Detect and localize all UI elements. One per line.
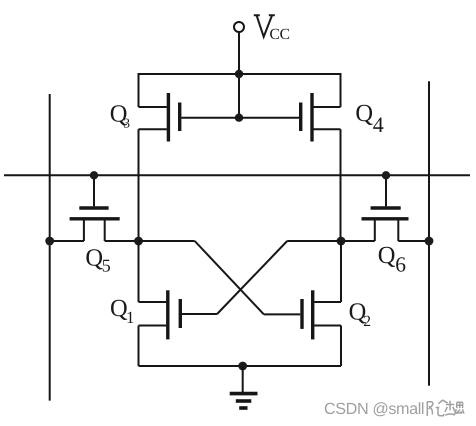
- wire top rail: [139, 73, 341, 75]
- svg-text:4: 4: [373, 112, 384, 137]
- svg-text:2: 2: [363, 313, 371, 330]
- wire Q2 source down: [340, 326, 342, 367]
- transistor Q5: [50, 175, 139, 241]
- node gate junction: [235, 114, 243, 122]
- label Q1: [110, 295, 135, 327]
- svg-text:5: 5: [102, 256, 111, 276]
- wire Q4 source to node B: [340, 129, 342, 241]
- wire node B to cross: [287, 240, 341, 242]
- node left bit line junction: [45, 237, 54, 246]
- svg-text:3: 3: [123, 115, 130, 130]
- label Vcc: [254, 15, 290, 43]
- Vcc terminal circle: [234, 22, 244, 32]
- transistor Q2: [264, 241, 341, 339]
- wire Q3 source to node A: [138, 129, 140, 241]
- wire bottom rail: [139, 365, 342, 367]
- node B junction: [337, 237, 346, 246]
- svg-text:CC: CC: [270, 26, 291, 43]
- label Q5: [85, 245, 110, 276]
- label Q6: [378, 242, 406, 277]
- transistor Q1: [139, 241, 218, 339]
- svg-text:6: 6: [395, 253, 406, 277]
- wire word line: [4, 174, 470, 176]
- transistor Q6: [341, 175, 429, 241]
- node Q6 gate on word line: [382, 171, 390, 179]
- wire Vcc stem: [238, 33, 240, 118]
- wire cross-couple diagonal B to Q1 gate: [217, 241, 287, 314]
- svg-text:Q: Q: [378, 242, 396, 269]
- svg-text:1: 1: [126, 308, 135, 327]
- label Q2: [349, 299, 371, 331]
- transistor Q4: [239, 73, 341, 142]
- wire right bit line: [428, 81, 430, 385]
- node Vcc rail junction: [235, 70, 243, 78]
- wire cross-couple diagonal A to Q2 gate: [195, 241, 264, 314]
- transistor Q3: [139, 73, 240, 142]
- svg-text:CSDN @small: CSDN @small: [324, 400, 425, 418]
- node right bit line junction: [425, 237, 434, 246]
- svg-text:Q: Q: [355, 100, 373, 127]
- watermark CSDN @small陀螺: [324, 400, 464, 418]
- svg-text:Q: Q: [85, 245, 103, 272]
- label Q3: [110, 100, 130, 130]
- node ground junction: [238, 362, 247, 371]
- wire left bit line: [49, 94, 51, 401]
- wire Q1 source down: [138, 326, 140, 367]
- node Q5 gate on word line: [90, 171, 98, 179]
- wire node A to cross: [139, 240, 195, 242]
- label Q4: [355, 100, 383, 137]
- ground: [230, 366, 258, 408]
- node A junction: [134, 237, 143, 246]
